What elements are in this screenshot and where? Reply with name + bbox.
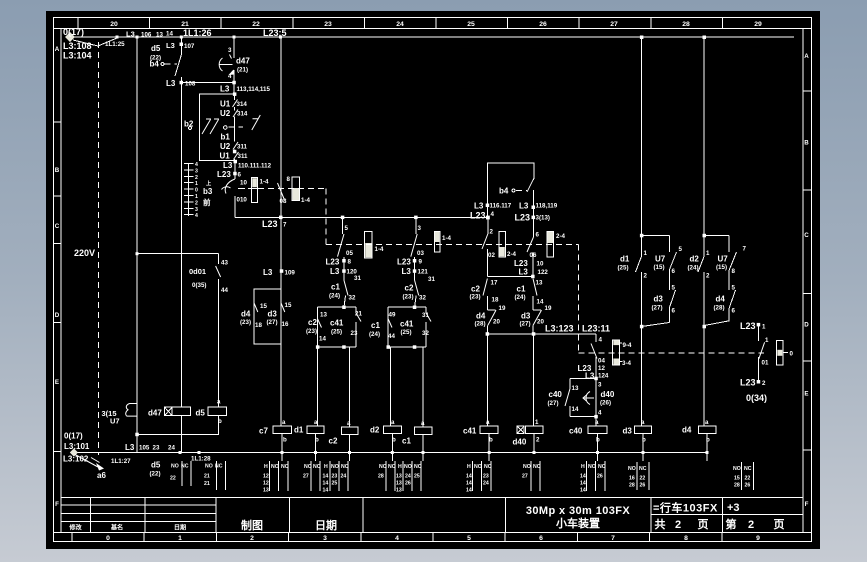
- svg-text:a: a: [314, 419, 318, 426]
- coil d47 arrow symbol: [219, 58, 222, 71]
- svg-text:1-4: 1-4: [301, 197, 311, 204]
- svg-text:5: 5: [345, 225, 349, 232]
- svg-text:14: 14: [323, 481, 329, 487]
- svg-text:2: 2: [490, 229, 494, 236]
- contact a6: [75, 455, 100, 468]
- wire: branch to 0d01: [137, 253, 219, 255]
- svg-text:L3:104: L3:104: [63, 51, 92, 61]
- svg-text:(15): (15): [654, 264, 665, 271]
- svg-text:15: 15: [285, 302, 292, 309]
- svg-text:(27): (27): [652, 305, 663, 312]
- svg-text:25: 25: [467, 21, 475, 28]
- svg-text:105: 105: [139, 445, 150, 452]
- svg-text:H: H: [467, 464, 471, 470]
- relay ladder d1/U7: [618, 36, 683, 427]
- svg-text:c41: c41: [400, 320, 414, 329]
- svg-text:NO: NO: [588, 464, 596, 470]
- svg-text:1L1:27: 1L1:27: [111, 458, 131, 465]
- contact d4 (23): [240, 303, 267, 329]
- svg-text:c1: c1: [331, 283, 340, 292]
- wire: d40 column: [533, 334, 535, 426]
- svg-text:2: 2: [195, 200, 198, 206]
- terminal group d4: [733, 462, 754, 490]
- svg-text:c1: c1: [402, 437, 411, 446]
- svg-text:NO: NO: [404, 464, 412, 470]
- svg-text:L23:5: L23:5: [263, 28, 287, 38]
- branch contact 03 / c2(23): [397, 217, 435, 307]
- svg-text:20: 20: [537, 319, 544, 326]
- svg-text:B: B: [55, 167, 60, 174]
- svg-text:页: 页: [698, 518, 709, 531]
- svg-text:6: 6: [536, 232, 540, 239]
- contactor coil d40: [513, 419, 544, 447]
- coil d47 aux: [148, 407, 190, 417]
- svg-text:121: 121: [418, 269, 429, 276]
- title block top line: [61, 497, 803, 499]
- wire: L23 5 rail: [280, 37, 282, 217]
- svg-text:14: 14: [466, 474, 472, 480]
- svg-text:a: a: [391, 419, 395, 426]
- svg-text:21: 21: [204, 481, 210, 487]
- svg-text:a: a: [347, 420, 351, 427]
- svg-text:L3: L3: [166, 41, 175, 50]
- node U2/U1 311: [233, 150, 237, 154]
- contactor coil c41: [463, 419, 498, 444]
- svg-text:2: 2: [675, 519, 681, 531]
- node L23 6: [233, 172, 237, 176]
- svg-text:A: A: [55, 46, 60, 53]
- node branch 03: [414, 216, 418, 220]
- svg-text:(24): (24): [688, 265, 699, 272]
- svg-text:24: 24: [405, 474, 411, 480]
- contactor coil d1: [294, 419, 324, 444]
- node frame1 bottom: [316, 345, 320, 349]
- svg-text:d3: d3: [268, 310, 278, 319]
- svg-text:c1: c1: [517, 285, 526, 294]
- svg-text:c40: c40: [549, 390, 563, 399]
- svg-text:27: 27: [522, 474, 528, 480]
- node frame2 bottom: [387, 345, 391, 349]
- svg-text:H: H: [581, 464, 585, 470]
- svg-text:108: 108: [185, 81, 196, 88]
- svg-text:10: 10: [537, 261, 544, 268]
- svg-text:32: 32: [422, 330, 429, 337]
- svg-text:1L1:26: 1L1:26: [183, 28, 212, 38]
- svg-text:E: E: [804, 391, 808, 398]
- svg-text:0(35): 0(35): [192, 282, 206, 289]
- svg-text:26: 26: [597, 474, 603, 480]
- svg-text:L3: L3: [125, 443, 135, 452]
- svg-text:a: a: [282, 419, 286, 426]
- svg-text:L3: L3: [519, 202, 529, 211]
- svg-text:(22): (22): [150, 471, 161, 478]
- dashed link to U7 contact: [229, 126, 244, 128]
- svg-text:6: 6: [672, 268, 676, 275]
- node L3 123 mid: [532, 332, 536, 336]
- svg-text:3: 3: [598, 382, 602, 389]
- svg-text:7: 7: [743, 246, 747, 253]
- contact c40 / coil d40 pair: [548, 378, 615, 426]
- wire: top supply bus L1: [70, 36, 794, 38]
- svg-text:8: 8: [684, 535, 688, 542]
- svg-text:0(17): 0(17): [64, 432, 83, 441]
- svg-text:a: a: [217, 399, 221, 406]
- svg-text:c2: c2: [405, 284, 414, 293]
- svg-text:0(17): 0(17): [63, 27, 84, 37]
- svg-text:U7: U7: [718, 255, 729, 264]
- svg-text:1-4: 1-4: [260, 179, 270, 186]
- svg-text:小车装置: 小车装置: [555, 516, 600, 530]
- terminal group c40: [580, 461, 606, 494]
- limit switch indicator 05/1-4: [365, 232, 384, 258]
- svg-text:20: 20: [110, 21, 118, 28]
- svg-text:E: E: [55, 379, 59, 386]
- svg-text:共: 共: [655, 517, 666, 531]
- svg-text:14: 14: [323, 474, 329, 480]
- svg-text:110.111.112: 110.111.112: [238, 163, 272, 170]
- svg-text:314: 314: [237, 111, 248, 118]
- svg-text:13: 13: [536, 280, 543, 287]
- svg-text:H: H: [398, 464, 402, 470]
- svg-text:基名: 基名: [110, 524, 123, 532]
- svg-text:L23: L23: [326, 258, 340, 267]
- svg-text:1: 1: [765, 337, 769, 344]
- svg-text:C: C: [804, 232, 809, 239]
- svg-text:7: 7: [611, 535, 615, 542]
- svg-text:2: 2: [644, 273, 648, 280]
- svg-text:0d01: 0d01: [189, 267, 206, 276]
- svg-text:4: 4: [491, 211, 495, 218]
- svg-text:a: a: [595, 419, 599, 426]
- node frame2 top: [413, 306, 417, 310]
- svg-text:U7: U7: [655, 255, 666, 264]
- svg-text:21: 21: [181, 21, 189, 28]
- svg-text:U7: U7: [110, 417, 120, 426]
- svg-text:16: 16: [629, 476, 635, 482]
- svg-text:(27): (27): [548, 400, 559, 407]
- chain c1/d3 right: [514, 190, 552, 334]
- node b1 circle: [224, 126, 228, 130]
- node d47/L3-108 junction: [232, 81, 236, 85]
- terminal group d1/c2: [303, 461, 349, 494]
- svg-text:9: 9: [419, 259, 423, 266]
- contact b3: [203, 176, 250, 217]
- svg-text:24: 24: [168, 445, 175, 452]
- svg-text:2-4: 2-4: [556, 233, 566, 240]
- svg-text:2: 2: [762, 380, 766, 387]
- node L3 118: [532, 206, 536, 210]
- svg-text:21: 21: [204, 474, 210, 480]
- svg-text:13: 13: [263, 488, 269, 494]
- revision table rows: [61, 505, 216, 521]
- svg-text:26: 26: [640, 483, 646, 489]
- interlock frame b4: [487, 163, 534, 218]
- svg-text:4: 4: [195, 213, 198, 219]
- relay ladder d2/U7: [688, 36, 747, 427]
- node L3:106: [116, 36, 119, 39]
- svg-text:26: 26: [745, 483, 751, 489]
- wire: L23 7 bus: [235, 216, 488, 218]
- svg-text:a: a: [705, 419, 709, 426]
- svg-text:c2: c2: [471, 285, 480, 294]
- svg-text:F: F: [55, 501, 59, 508]
- top zone numbers 20-29: [110, 21, 762, 28]
- svg-text:d40: d40: [601, 390, 615, 399]
- svg-text:14: 14: [466, 488, 472, 494]
- bottom zone strip line: [54, 532, 812, 534]
- svg-text:03: 03: [417, 250, 424, 257]
- svg-text:23: 23: [332, 474, 338, 480]
- wire: c41 column: [486, 334, 488, 426]
- node L3 123 left: [486, 332, 490, 336]
- svg-text:(25): (25): [331, 329, 342, 336]
- chain c2/d4 left: [470, 218, 533, 334]
- svg-text:18: 18: [492, 297, 499, 304]
- terminal group d40: [522, 461, 541, 491]
- svg-text:d2: d2: [690, 255, 700, 264]
- node interlock top: [233, 92, 237, 96]
- svg-text:17: 17: [491, 280, 498, 287]
- svg-text:3: 3: [323, 535, 327, 542]
- svg-text:118,119: 118,119: [536, 203, 558, 210]
- svg-text:16: 16: [282, 321, 289, 328]
- svg-text:d5: d5: [151, 461, 161, 470]
- node frame1 top: [342, 306, 346, 310]
- svg-text:前: 前: [203, 197, 211, 207]
- svg-text:31: 31: [422, 312, 429, 319]
- svg-text:(28): (28): [714, 305, 725, 312]
- svg-text:(24): (24): [369, 331, 380, 338]
- svg-text:31: 31: [428, 276, 435, 283]
- svg-text:1: 1: [178, 535, 182, 542]
- frame contacts d4/d3: [254, 289, 282, 344]
- svg-text:22: 22: [640, 476, 646, 482]
- svg-text:a: a: [421, 420, 425, 427]
- wire: bottom return bus: [76, 452, 708, 454]
- svg-text:L3: L3: [519, 268, 529, 277]
- svg-text:NO: NO: [628, 466, 636, 472]
- svg-text:10: 10: [240, 180, 247, 187]
- svg-text:(15): (15): [716, 264, 727, 271]
- svg-text:d5: d5: [151, 44, 161, 53]
- svg-text:26: 26: [539, 21, 547, 28]
- contactor coil d3: [623, 419, 652, 444]
- svg-text:8: 8: [348, 259, 352, 266]
- nodes on return bus: [179, 451, 709, 454]
- svg-text:d4: d4: [241, 310, 251, 319]
- svg-text:修改: 修改: [68, 524, 82, 532]
- svg-text:(23): (23): [240, 319, 251, 326]
- svg-text:d1: d1: [620, 255, 630, 264]
- svg-text:32: 32: [419, 295, 426, 302]
- contact 08 on L23 5 rail: [278, 176, 291, 205]
- contactor coil d4: [682, 419, 716, 444]
- wire: d5 aux return to 220V rail: [137, 433, 219, 435]
- svg-text:23: 23: [483, 474, 489, 480]
- svg-text:220V: 220V: [74, 248, 95, 258]
- svg-text:L3: L3: [126, 30, 135, 39]
- svg-text:25: 25: [414, 474, 420, 480]
- limit switch indicator 08/1-4: [292, 177, 310, 204]
- svg-text:a: a: [486, 419, 490, 426]
- svg-text:4: 4: [228, 73, 232, 80]
- contact slash right pair: [252, 115, 260, 130]
- svg-text:a: a: [641, 419, 645, 426]
- svg-text:2: 2: [250, 535, 254, 542]
- svg-text:页: 页: [774, 518, 785, 531]
- node branch top: [180, 36, 183, 39]
- contactor coil c2: [329, 420, 358, 446]
- svg-text:1-4: 1-4: [375, 246, 385, 253]
- wire: L3 123 bus: [487, 333, 596, 335]
- svg-text:L3: L3: [330, 267, 340, 276]
- svg-text:1: 1: [195, 181, 198, 187]
- limit switch indicator 02/2-4: [499, 232, 517, 259]
- svg-text:5: 5: [732, 285, 736, 292]
- svg-text:1: 1: [644, 250, 648, 257]
- svg-text:U2: U2: [220, 109, 231, 118]
- svg-text:124: 124: [598, 373, 609, 380]
- svg-text:12: 12: [263, 481, 269, 487]
- svg-text:(23): (23): [403, 294, 414, 301]
- svg-text:28: 28: [629, 483, 635, 489]
- node L3 110: [234, 160, 238, 164]
- node 0(17) diamond: [65, 32, 75, 42]
- svg-text:13: 13: [320, 312, 327, 319]
- svg-text:4: 4: [395, 535, 399, 542]
- svg-text:29: 29: [754, 21, 762, 28]
- svg-text:20: 20: [493, 319, 500, 326]
- node L3 108: [180, 81, 184, 85]
- svg-text:L23: L23: [262, 219, 278, 229]
- svg-text:22: 22: [170, 476, 176, 482]
- svg-text:b4: b4: [150, 60, 160, 69]
- frame contacts c2/c41: [318, 307, 356, 347]
- svg-text:49: 49: [389, 312, 396, 319]
- svg-text:106: 106: [141, 32, 152, 39]
- coil d5 aux: [196, 399, 227, 435]
- svg-text:5: 5: [467, 535, 471, 542]
- svg-text:15: 15: [734, 476, 740, 482]
- node L23 3: [532, 216, 536, 220]
- svg-text:02: 02: [488, 252, 495, 259]
- svg-text:1L1:25: 1L1:25: [105, 41, 125, 48]
- svg-text:L3: L3: [402, 267, 412, 276]
- node 220V/0d01 junction: [136, 252, 139, 255]
- svg-text:上: 上: [206, 179, 212, 187]
- svg-text:(24): (24): [515, 294, 526, 301]
- bottom zone numbers 0-9: [106, 535, 760, 542]
- svg-text:6: 6: [732, 308, 736, 315]
- svg-text:b1: b1: [221, 133, 231, 142]
- revision table verticals: [90, 498, 722, 533]
- svg-text:3: 3: [418, 225, 422, 232]
- svg-text:b4: b4: [499, 187, 509, 196]
- terminal group d2/c1: [378, 461, 422, 494]
- contact d3 (27): [267, 302, 292, 328]
- svg-text:b3: b3: [203, 187, 213, 196]
- svg-text:(26): (26): [600, 400, 611, 407]
- svg-text:C: C: [55, 223, 60, 230]
- svg-text:107: 107: [184, 43, 195, 50]
- wire: L3 109 column: [280, 217, 282, 426]
- svg-text:(27): (27): [267, 319, 278, 326]
- svg-text:28: 28: [378, 474, 384, 480]
- svg-text:L3:102: L3:102: [63, 455, 89, 464]
- svg-text:L3: L3: [223, 161, 233, 170]
- svg-text:d5: d5: [196, 409, 206, 418]
- wire: frame1 to d1/c2 columns: [318, 347, 350, 427]
- svg-text:13: 13: [156, 32, 163, 39]
- svg-text:28: 28: [734, 483, 740, 489]
- svg-text:2: 2: [536, 437, 540, 444]
- svg-text:=行车103FX: =行车103FX: [653, 501, 718, 515]
- svg-text:14: 14: [323, 488, 329, 494]
- svg-text:24: 24: [341, 474, 347, 480]
- svg-text:1-4: 1-4: [442, 235, 452, 242]
- contactor coil c40: [569, 419, 607, 444]
- svg-text:H: H: [264, 464, 268, 470]
- svg-text:113,114,115: 113,114,115: [237, 86, 271, 93]
- svg-text:L23: L23: [470, 211, 486, 221]
- svg-text:A: A: [804, 53, 809, 60]
- svg-text:8: 8: [287, 176, 291, 183]
- terminal group c41: [466, 461, 492, 494]
- svg-text:第: 第: [726, 517, 737, 531]
- svg-text:14: 14: [580, 481, 586, 487]
- svg-text:L3: L3: [166, 79, 176, 88]
- svg-text:314: 314: [237, 101, 248, 108]
- svg-text:U2: U2: [220, 142, 231, 151]
- wire: drop to L23 6: [234, 162, 236, 176]
- svg-text:c41: c41: [463, 427, 477, 436]
- svg-text:5: 5: [679, 246, 683, 253]
- wire: dashed interlock bus upper: [238, 188, 579, 244]
- contact 9-4 branch: [578, 334, 609, 417]
- svg-text:311: 311: [238, 153, 249, 160]
- svg-text:01: 01: [762, 360, 769, 367]
- svg-text:NO: NO: [523, 464, 531, 470]
- svg-text:d4: d4: [682, 426, 692, 435]
- svg-text:1: 1: [195, 194, 198, 200]
- svg-text:(23): (23): [470, 294, 481, 301]
- title block row divider: [651, 514, 803, 516]
- svg-text:14: 14: [466, 481, 472, 487]
- svg-text:(25): (25): [401, 329, 412, 336]
- svg-text:U1: U1: [220, 152, 231, 161]
- svg-text:L3: L3: [585, 372, 595, 381]
- svg-text:15: 15: [260, 303, 267, 310]
- svg-text:311: 311: [237, 143, 248, 150]
- node branch 05: [341, 216, 345, 220]
- svg-text:1L1:28: 1L1:28: [191, 456, 211, 463]
- svg-text:1: 1: [706, 250, 710, 257]
- svg-text:3: 3: [228, 47, 232, 54]
- svg-text:06: 06: [530, 252, 537, 259]
- svg-text:6: 6: [539, 535, 543, 542]
- wire: 220V rail: [136, 37, 138, 453]
- svg-text:NO: NO: [171, 464, 179, 470]
- svg-text:d40: d40: [513, 438, 527, 447]
- svg-text:L3:101: L3:101: [64, 442, 90, 451]
- contactor coil d2: [370, 419, 401, 444]
- svg-text:d3: d3: [654, 295, 664, 304]
- svg-text:24: 24: [396, 21, 404, 28]
- svg-text:制图: 制图: [241, 518, 263, 532]
- svg-text:7: 7: [283, 222, 287, 229]
- svg-text:31: 31: [354, 275, 361, 282]
- svg-text:3-4: 3-4: [622, 360, 632, 367]
